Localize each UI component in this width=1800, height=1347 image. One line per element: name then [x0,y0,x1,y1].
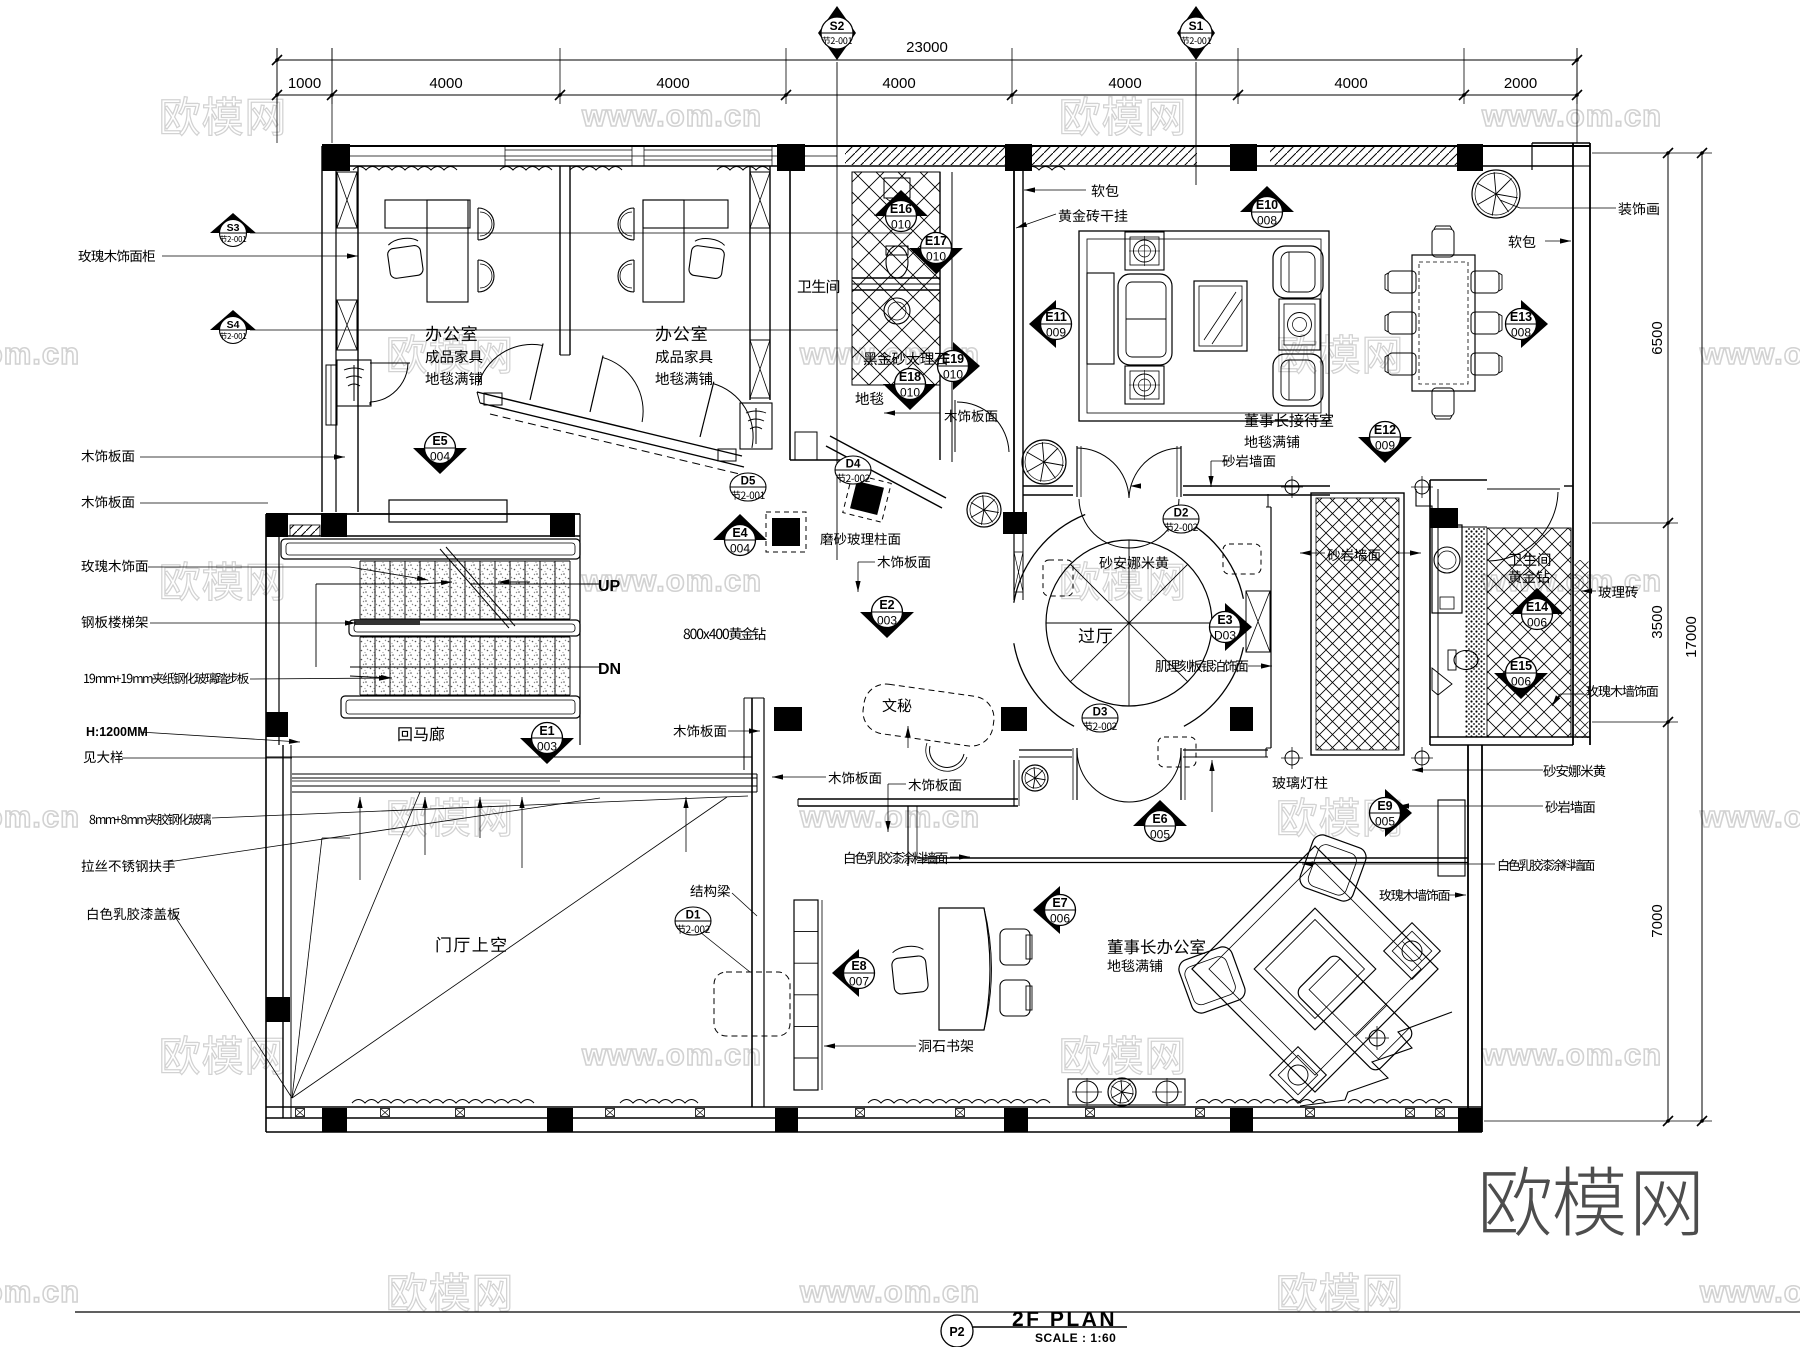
svg-text:003: 003 [537,740,557,754]
svg-text:DN: DN [598,661,621,678]
svg-text:E15: E15 [1510,659,1532,673]
svg-text:UP: UP [598,578,621,595]
svg-text:010: 010 [900,386,920,400]
svg-text:E11: E11 [1045,310,1067,324]
svg-text:004: 004 [730,542,750,556]
svg-text:4000: 4000 [1334,75,1367,92]
svg-text:E2: E2 [879,598,894,612]
svg-text:009: 009 [1046,326,1066,340]
svg-text:S3: S3 [227,222,240,234]
svg-text:E7: E7 [1052,896,1067,910]
svg-text:4000: 4000 [1108,75,1141,92]
svg-text:E17: E17 [925,234,947,248]
svg-text:008: 008 [1511,326,1531,340]
svg-text:H:1200MM: H:1200MM [86,725,148,739]
svg-text:S4: S4 [227,319,240,331]
svg-text:3500: 3500 [1649,605,1666,638]
svg-text:E8: E8 [851,959,866,973]
svg-text:E12: E12 [1374,423,1396,437]
svg-text:23000: 23000 [906,39,948,56]
svg-text:www.om.cn: www.om.cn [799,799,980,834]
svg-text:7000: 7000 [1649,904,1666,937]
svg-text:E14: E14 [1526,600,1548,614]
svg-text:010: 010 [891,218,911,232]
svg-text:010: 010 [943,368,963,382]
svg-text:D2: D2 [1174,508,1189,520]
svg-text:E3: E3 [1217,613,1232,627]
svg-text:006: 006 [1050,912,1070,926]
svg-text:17000: 17000 [1683,616,1700,658]
svg-text:1000: 1000 [288,75,321,92]
svg-text:E5: E5 [432,434,447,448]
svg-text:D5: D5 [741,476,756,488]
svg-text:006: 006 [1527,616,1547,630]
svg-text:010: 010 [926,250,946,264]
svg-text:D4: D4 [846,459,861,471]
svg-text:007: 007 [849,975,869,989]
svg-text:E13: E13 [1510,310,1532,324]
svg-text:2000: 2000 [1504,75,1537,92]
svg-text:4000: 4000 [656,75,689,92]
svg-text:www.om.cn: www.om.cn [581,1037,762,1072]
svg-text:005: 005 [1375,815,1395,829]
svg-text:E1: E1 [539,724,554,738]
svg-text:www.om.cn: www.om.cn [1699,336,1800,371]
svg-text:SCALE : 1:60: SCALE : 1:60 [1035,1331,1116,1345]
svg-text:www.om.cn: www.om.cn [1481,1037,1662,1072]
svg-text:www.om.cn: www.om.cn [799,1274,980,1309]
svg-text:005: 005 [1150,828,1170,842]
svg-text:www.om.cn: www.om.cn [0,336,80,371]
svg-text:009: 009 [1375,439,1395,453]
svg-text:www.om.cn: www.om.cn [1481,98,1662,133]
svg-text:E4: E4 [732,526,747,540]
svg-text:E18: E18 [899,370,921,384]
svg-text:www.om.cn: www.om.cn [1699,799,1800,834]
svg-text:www.om.cn: www.om.cn [1699,1274,1800,1309]
svg-text:www.om.cn: www.om.cn [0,799,80,834]
svg-text:www.om.cn: www.om.cn [581,98,762,133]
svg-text:D3: D3 [1093,707,1108,719]
svg-text:008: 008 [1257,214,1277,228]
svg-text:6500: 6500 [1649,321,1666,354]
svg-text:S2: S2 [830,19,845,33]
svg-text:4000: 4000 [882,75,915,92]
svg-text:006: 006 [1511,675,1531,689]
svg-text:003: 003 [877,614,897,628]
svg-text:www.om.cn: www.om.cn [0,1274,80,1309]
svg-text:D1: D1 [686,910,701,922]
svg-text:4000: 4000 [429,75,462,92]
svg-text:E6: E6 [1152,812,1167,826]
svg-text:E10: E10 [1256,198,1278,212]
svg-text:004: 004 [430,450,450,464]
svg-text:P2: P2 [949,1325,964,1339]
svg-text:E9: E9 [1377,799,1392,813]
svg-text:2F PLAN: 2F PLAN [1012,1308,1117,1331]
svg-text:E16: E16 [890,202,912,216]
svg-text:S1: S1 [1189,19,1204,33]
svg-text:D03: D03 [1214,629,1236,643]
